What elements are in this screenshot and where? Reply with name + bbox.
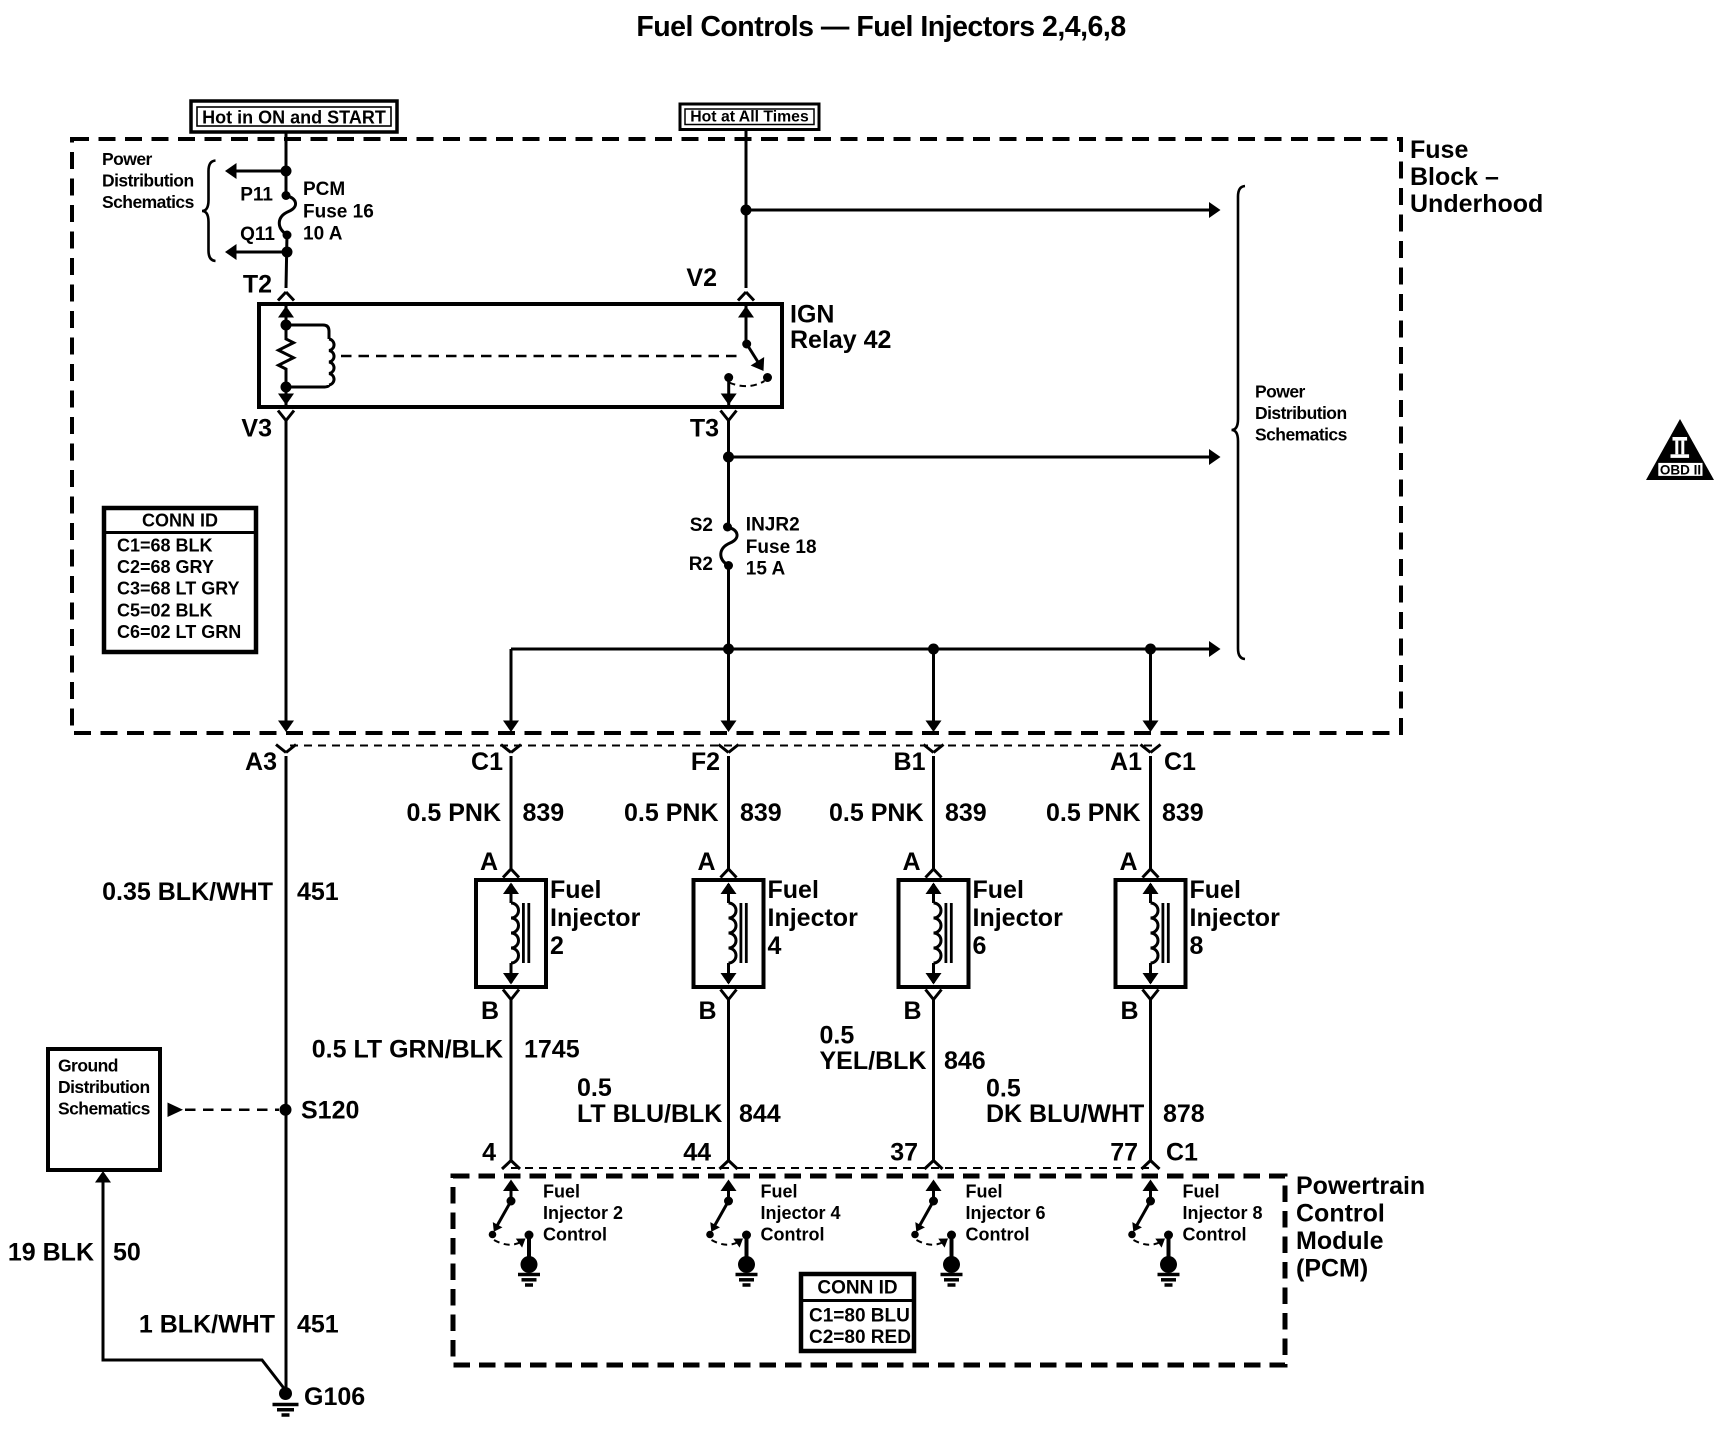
svg-text:15 A: 15 A (746, 559, 786, 580)
pin label V2 (686, 264, 717, 292)
node: driver output contact (947, 1231, 956, 1240)
svg-text:Injector: Injector (973, 904, 1064, 932)
fuse: INJR2 Fuse 18 15 A (721, 527, 737, 566)
svg-text:C6=02 LT GRN: C6=02 LT GRN (117, 622, 241, 642)
svg-text:Distribution: Distribution (102, 171, 194, 191)
wire: bus drop at x=728.5 (727, 649, 730, 721)
svg-text:Fuel: Fuel (550, 876, 601, 904)
svg-text:YEL/BLK: YEL/BLK (820, 1047, 927, 1075)
node: bus junction F2 (723, 644, 734, 655)
svg-text:Powertrain: Powertrain (1296, 1172, 1425, 1200)
svg-text:Fuel: Fuel (973, 876, 1024, 904)
svg-text:C2=80 RED: C2=80 RED (809, 1327, 911, 1348)
wire: 0.5 PNK 839 to injector 8 pin A (1149, 756, 1152, 869)
connector V3 (278, 411, 294, 421)
svg-text:0.5: 0.5 (820, 1022, 855, 1050)
svg-text:G106: G106 (304, 1383, 365, 1411)
node: T3 contact (724, 373, 733, 382)
note: Power Distribution Schematics (left) (102, 149, 195, 212)
svg-text:C1: C1 (1164, 748, 1196, 776)
svg-text:Ground: Ground (58, 1056, 118, 1076)
svg-text:Injector 6: Injector 6 (966, 1203, 1046, 1223)
svg-text:Module: Module (1296, 1227, 1384, 1255)
wire: injector feed bus (511, 648, 1209, 651)
svg-text:T2: T2 (243, 271, 272, 299)
wire: injector 6 control to PCM (932, 1000, 935, 1161)
svg-text:V2: V2 (686, 264, 717, 292)
connector: PCM pin (502, 1161, 520, 1170)
svg-text:P11: P11 (240, 185, 273, 206)
svg-text:44: 44 (683, 1139, 711, 1167)
svg-text:R2: R2 (689, 554, 713, 575)
svg-text:C1: C1 (1166, 1139, 1198, 1167)
connector: PCM pin (1142, 1161, 1160, 1170)
svg-text:LT BLU/BLK: LT BLU/BLK (577, 1100, 722, 1128)
wire: 0.5 PNK 839 to injector 2 pin A (510, 756, 513, 869)
dashed travel arc (729, 381, 765, 386)
svg-text:0.5: 0.5 (577, 1074, 612, 1102)
connector T2 (278, 292, 294, 301)
svg-text:C1=80 BLU: C1=80 BLU (809, 1306, 910, 1327)
svg-text:50: 50 (113, 1239, 141, 1267)
label: Fuel Injector 4 Control (761, 1182, 841, 1245)
svg-text:Control: Control (1183, 1225, 1247, 1245)
svg-text:0.5 PNK: 0.5 PNK (407, 799, 501, 827)
node: bus junction B1 (928, 644, 939, 655)
ground (PCM internal) (1160, 1256, 1177, 1273)
svg-text:846: 846 (944, 1047, 986, 1075)
connector row dashed line (fuse block outputs) (290, 745, 1152, 747)
svg-text:Injector 8: Injector 8 (1183, 1203, 1263, 1223)
wire: T3 contact to box bottom (727, 378, 730, 406)
svg-text:A: A (902, 848, 920, 876)
svg-text:A1: A1 (1110, 748, 1142, 776)
svg-text:CONN ID: CONN ID (142, 511, 218, 531)
svg-text:37: 37 (890, 1139, 918, 1167)
node: driver output contact (525, 1231, 534, 1240)
svg-text:Hot at All Times: Hot at All Times (690, 109, 809, 126)
connector: injector 8 pin B (1143, 990, 1159, 1000)
svg-text:Fuel: Fuel (761, 1182, 798, 1202)
PCM driver: fuel injector 2 control (503, 1180, 519, 1192)
wire: injector 2 control to PCM (510, 1000, 513, 1161)
svg-text:Fuel: Fuel (543, 1182, 580, 1202)
label: Fuel Injector 6 Control (966, 1182, 1046, 1245)
svg-text:1 BLK/WHT: 1 BLK/WHT (139, 1311, 275, 1339)
svg-text:Schematics: Schematics (1255, 425, 1348, 445)
node: switch pivot (742, 340, 751, 349)
svg-text:Schematics: Schematics (58, 1099, 151, 1119)
pin letters A B (480, 848, 499, 1025)
svg-text:C1: C1 (471, 748, 503, 776)
label: Fuel Injector 2 (550, 876, 641, 960)
svg-text:Fuel Controls — Fuel Injectors: Fuel Controls — Fuel Injectors 2,4,6,8 (636, 11, 1125, 43)
node: driver output contact (1164, 1231, 1173, 1240)
pin labels P11 Q11, fuse name (240, 179, 374, 245)
wire: battery feed from Hot at All Times to relay V2 (745, 130, 748, 289)
wire label: 0.35 BLK/WHT 451 (102, 878, 339, 906)
PCM dashed outline (453, 1176, 1285, 1365)
svg-text:(PCM): (PCM) (1296, 1255, 1368, 1283)
node S2 (723, 523, 732, 532)
relay coil wire (left pin T2 to V3) (285, 306, 288, 405)
connector A3 (276, 745, 296, 753)
connector cavity labels (245, 748, 1196, 776)
svg-text:IGN: IGN (790, 301, 834, 329)
wire: arrow to power distribution schematics (upper) (236, 170, 286, 173)
svg-text:451: 451 (297, 878, 339, 906)
PCM pin numbers (482, 1139, 1198, 1167)
wire: arrow right to power distribution schematics (middle) (729, 456, 1210, 459)
svg-text:Fuel: Fuel (1183, 1182, 1220, 1202)
node: coil bottom (281, 382, 292, 393)
label: Fuel Injector 4 (768, 876, 859, 960)
svg-text:Power: Power (1255, 382, 1306, 402)
wire: T3 down to INJR2 fuse (727, 421, 730, 650)
svg-text:Q11: Q11 (240, 224, 275, 245)
fuse labels S2 R2 INJR2 (689, 515, 817, 580)
connector: injector 8 pin A (1143, 869, 1159, 878)
connector: injector 2 pin A (503, 869, 519, 878)
wire: main ground leg down to G106 (285, 756, 288, 1390)
relay coil winding branch (286, 325, 329, 339)
svg-text:Fuse: Fuse (1410, 136, 1468, 164)
arrow + dashed reference to S120 (168, 1103, 184, 1118)
svg-text:Injector: Injector (550, 904, 641, 932)
svg-text:0.5 PNK: 0.5 PNK (829, 799, 923, 827)
wire labels: 0.5 PNK 839 (407, 799, 1204, 827)
svg-text:F2: F2 (691, 748, 720, 776)
fuel injector 2 (476, 880, 546, 987)
PCM driver: fuel injector 6 control (926, 1180, 942, 1192)
connector: injector 2 pin B (503, 990, 519, 1000)
ground distribution schematics box (48, 1049, 160, 1170)
svg-text:Fuel: Fuel (966, 1182, 1003, 1202)
svg-text:S2: S2 (690, 515, 713, 536)
pin label V3 (241, 415, 272, 443)
svg-text:T3: T3 (690, 415, 719, 443)
PCM driver: fuel injector 8 control (1143, 1180, 1159, 1192)
label: Fuel Injector 6 (973, 876, 1064, 960)
svg-text:Control: Control (761, 1225, 825, 1245)
svg-text:Hot in ON and START: Hot in ON and START (202, 108, 386, 128)
svg-text:844: 844 (739, 1100, 781, 1128)
svg-text:Injector: Injector (1190, 904, 1281, 932)
pin label T3 (690, 415, 719, 443)
svg-text:8: 8 (1190, 932, 1204, 960)
svg-text:4: 4 (482, 1139, 496, 1167)
ground (PCM internal) (738, 1256, 755, 1273)
svg-text:OBD II: OBD II (1660, 462, 1701, 477)
svg-text:6: 6 (973, 932, 987, 960)
svg-text:Underhood: Underhood (1410, 190, 1543, 218)
brace (right) (1232, 186, 1246, 659)
wire: arrow right to power distribution schematics (746, 209, 1209, 212)
svg-text:Injector 4: Injector 4 (761, 1203, 841, 1223)
connector: PCM pin (720, 1161, 738, 1170)
svg-text:0.35 BLK/WHT: 0.35 BLK/WHT (102, 878, 273, 906)
svg-text:C5=02 BLK: C5=02 BLK (117, 601, 213, 621)
svg-text:Control: Control (1296, 1200, 1385, 1228)
svg-text:19 BLK: 19 BLK (8, 1239, 94, 1267)
connector B1 (924, 745, 944, 753)
fuel injector 4 (694, 880, 764, 987)
svg-text:A: A (480, 848, 498, 876)
connector: injector 6 pin A (926, 869, 942, 878)
svg-text:B: B (481, 997, 499, 1025)
ground (PCM internal) (521, 1256, 538, 1273)
relay box: IGN Relay 42 (259, 304, 782, 407)
svg-text:Relay 42: Relay 42 (790, 326, 891, 354)
ground G106 (279, 1387, 292, 1400)
svg-text:B: B (698, 997, 716, 1025)
svg-text:Fuse 18: Fuse 18 (746, 537, 817, 558)
node R2 (724, 561, 733, 570)
svg-text:A: A (697, 848, 715, 876)
node: junction to power distribution (lower) (282, 247, 293, 258)
connector T3 (721, 411, 737, 421)
node: blade contact (763, 373, 772, 382)
node: bus junction A1 (1145, 644, 1156, 655)
connector C1 (501, 745, 521, 753)
connector A1 (1141, 745, 1161, 753)
svg-text:C3=68 LT GRY: C3=68 LT GRY (117, 579, 240, 599)
wire: 19 BLK 50 branch to ground distribution (95, 1171, 111, 1183)
label: Fuel Injector 8 (1190, 876, 1281, 960)
connector: PCM pin (925, 1161, 943, 1170)
wire: ignition feed from Hot in ON and START to relay T2 (286, 132, 287, 288)
title (636, 11, 1125, 43)
svg-text:1745: 1745 (524, 1036, 580, 1064)
svg-text:PCM: PCM (303, 179, 345, 200)
splice node S120 (280, 1104, 292, 1116)
svg-text:839: 839 (523, 799, 565, 827)
pin label T2 (243, 271, 272, 299)
svg-text:Fuel: Fuel (768, 876, 819, 904)
node P11 (282, 191, 291, 200)
relay switch (V2 to T3) (745, 306, 748, 341)
connector: injector 4 pin B (721, 990, 737, 1000)
switch blade (747, 344, 761, 366)
svg-text:C1=68 BLK: C1=68 BLK (117, 536, 213, 556)
svg-text:0.5: 0.5 (986, 1075, 1021, 1103)
label: Fuel Injector 2 Control (543, 1182, 623, 1245)
svg-text:Power: Power (102, 149, 153, 169)
svg-text:Injector 2: Injector 2 (543, 1203, 623, 1223)
pin letters A B (1119, 848, 1138, 1025)
svg-text:878: 878 (1163, 1100, 1205, 1128)
svg-text:77: 77 (1110, 1139, 1138, 1167)
connector V2 (738, 292, 754, 301)
power label box: Hot in ON and START (191, 101, 397, 132)
label: Powertrain Control Module (PCM) (1296, 1172, 1425, 1283)
wire: 0.5 PNK 839 to injector 6 pin A (932, 756, 935, 869)
svg-text:0.5 LT GRN/BLK: 0.5 LT GRN/BLK (312, 1036, 503, 1064)
wire: injector 4 control to PCM (727, 1000, 730, 1161)
wire: V3 down to A3 (0.35 BLK/WHT) (285, 421, 288, 722)
wire label: 1 BLK/WHT 451 (139, 1311, 339, 1339)
svg-text:839: 839 (740, 799, 782, 827)
svg-text:Control: Control (543, 1225, 607, 1245)
svg-text:B: B (1120, 997, 1138, 1025)
svg-text:V3: V3 (241, 415, 272, 443)
svg-text:A3: A3 (245, 748, 277, 776)
svg-text:A: A (1119, 848, 1137, 876)
svg-text:B1: B1 (894, 748, 926, 776)
brace (left) (202, 161, 216, 262)
fuel injector 6 (899, 880, 969, 987)
svg-text:4: 4 (768, 932, 782, 960)
dashed actuation link (341, 355, 743, 358)
wire labels: control circuits (312, 1022, 1205, 1129)
conn id table (PCM) (801, 1274, 914, 1351)
OBD II symbol (1646, 419, 1714, 480)
wire: injector 8 control to PCM (1149, 1000, 1152, 1161)
svg-text:INJR2: INJR2 (746, 515, 800, 536)
svg-text:Injector: Injector (768, 904, 859, 932)
pin letters A B (902, 848, 921, 1025)
label: Fuel Injector 8 Control (1183, 1182, 1263, 1245)
svg-text:S120: S120 (301, 1097, 359, 1125)
svg-text:DK BLU/WHT: DK BLU/WHT (986, 1100, 1144, 1128)
node Q11 (283, 231, 292, 240)
svg-text:Block –: Block – (1410, 163, 1499, 191)
PCM driver: fuel injector 4 control (721, 1180, 737, 1192)
power label box: Hot at All Times (680, 104, 819, 130)
connector: injector 6 pin B (926, 990, 942, 1000)
PCM connector row dashed line (511, 1167, 1151, 1169)
svg-text:Schematics: Schematics (102, 192, 195, 212)
svg-text:2: 2 (550, 932, 564, 960)
svg-text:Distribution: Distribution (1255, 403, 1347, 423)
wire: bus drop at x=933.5 (932, 649, 935, 721)
label: Fuse Block - Underhood (1410, 136, 1543, 218)
wire: bus drop at x=1150.5 (1149, 649, 1152, 721)
svg-text:839: 839 (1162, 799, 1204, 827)
fuel injector 8 (1116, 880, 1186, 987)
svg-text:B: B (903, 997, 921, 1025)
node: driver output contact (742, 1231, 751, 1240)
svg-text:Fuse 16: Fuse 16 (303, 202, 374, 223)
wire: bus drop at x=511 (510, 649, 513, 721)
node: junction to power distribution (upper) (281, 166, 292, 177)
resistor (relay internal) (279, 332, 294, 378)
node: junction to power distribution feed (741, 205, 752, 216)
fuse block underhood dashed outline (72, 139, 1401, 733)
svg-text:0.5 PNK: 0.5 PNK (1046, 799, 1140, 827)
svg-text:839: 839 (945, 799, 987, 827)
svg-text:0.5 PNK: 0.5 PNK (624, 799, 718, 827)
wire: 0.5 PNK 839 to injector 4 pin A (727, 756, 730, 869)
svg-text:451: 451 (297, 1311, 339, 1339)
svg-text:10 A: 10 A (303, 224, 343, 245)
svg-text:CONN ID: CONN ID (817, 1278, 897, 1299)
svg-text:Fuel: Fuel (1190, 876, 1241, 904)
svg-text:Control: Control (966, 1225, 1030, 1245)
svg-text:Distribution: Distribution (58, 1077, 150, 1097)
note: Power Distribution Schematics (right) (1255, 382, 1348, 445)
node: T3 junction to power distribution (723, 452, 734, 463)
connector: injector 4 pin A (721, 869, 737, 878)
connector F2 (719, 745, 739, 753)
conn id table (fuse block) (104, 508, 256, 652)
ground (PCM internal) (943, 1256, 960, 1273)
wire: arrow to power distribution schematics (lower) (236, 251, 287, 254)
fuse: PCM Fuse 16 10 A (279, 196, 295, 236)
svg-text:C2=68 GRY: C2=68 GRY (117, 557, 214, 577)
pin letters A B (697, 848, 716, 1025)
node: coil top (281, 320, 292, 331)
